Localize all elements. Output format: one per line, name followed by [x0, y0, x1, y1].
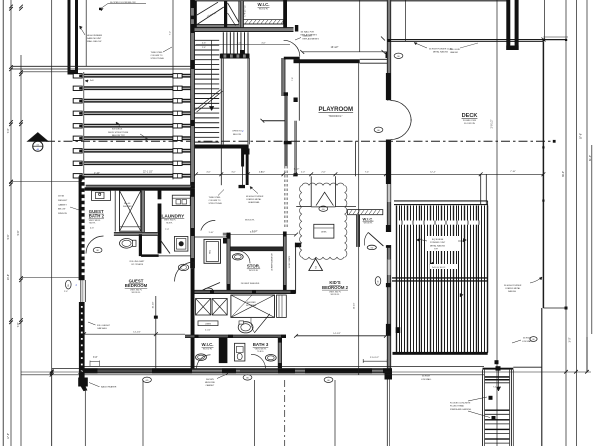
cd marker bedroom left — [66, 280, 72, 289]
floor joist 6 — [84, 136, 192, 138]
east wall black seg kid north — [386, 225, 391, 232]
bath2 toilet — [120, 239, 134, 249]
angled door — [255, 314, 270, 333]
svg-text:HIGH VENEER: HIGH VENEER — [87, 35, 102, 37]
laundry cabinet — [172, 195, 190, 205]
dimension line left 3 — [20, 55, 22, 446]
west wall window — [80, 280, 82, 302]
east house wall base — [387, 0, 390, 369]
svg-text:STRUCTURAL: STRUCTURAL — [209, 202, 223, 205]
svg-text:36 HIGH: 36 HIGH — [422, 376, 430, 378]
svg-text:WOOD FL: WOOD FL — [203, 348, 213, 350]
floor joist 8 — [84, 161, 192, 163]
sloped floor below note — [100, 4, 108, 10]
upper closet cell2 diagonal — [228, 3, 239, 22]
svg-text:4'-6": 4'-6" — [202, 42, 207, 44]
east wall black seg4 — [386, 283, 391, 287]
floor joist 9 — [84, 174, 192, 176]
revision cloud — [300, 183, 347, 259]
bath2 shower — [120, 191, 141, 232]
hall wall below laundry — [141, 254, 159, 257]
french door arc lower — [391, 119, 412, 140]
deck boards field — [396, 206, 398, 353]
upper closet room — [238, 1, 240, 28]
svg-text:61'-0": 61'-0" — [589, 155, 592, 161]
west wall upper flange — [68, 0, 71, 75]
lower vertical a — [51, 375, 53, 446]
svg-text:3: 3 — [315, 265, 317, 269]
gd marker deck door — [394, 53, 403, 58]
svg-text:WEDGE/T: WEDGE/T — [58, 200, 68, 202]
svg-text:WOOD FL: WOOD FL — [245, 220, 256, 222]
svg-text:BELOW TYP.: BELOW TYP. — [112, 135, 125, 137]
deck annotation patch — [427, 236, 461, 251]
kids dim line — [196, 173, 543, 175]
east wall door stop kid — [386, 245, 391, 248]
upper stair south wall — [221, 54, 250, 58]
svg-text:1'-10": 1'-10" — [208, 232, 213, 234]
svg-text:36 x 60: 36 x 60 — [124, 203, 130, 205]
hall east wall lower — [285, 96, 287, 166]
deck east wall — [542, 41, 544, 308]
east wall black mid — [386, 140, 391, 185]
bedroom dim line mid — [84, 333, 185, 335]
svg-text:W.I.C.: W.I.C. — [202, 342, 214, 347]
lower vertical c — [254, 380, 256, 446]
wic east wall — [283, 0, 287, 32]
svg-text:MEDICINE: MEDICINE — [205, 382, 215, 384]
bath3 door arc — [251, 354, 266, 369]
south wall black segments — [81, 369, 98, 374]
lower vertical b — [84, 387, 86, 446]
lower vertical b2 — [142, 380, 144, 446]
svg-text:COLUMN TO: COLUMN TO — [209, 200, 221, 202]
svg-text:WOOD FL: WOOD FL — [259, 9, 269, 11]
cd marker kids — [375, 277, 381, 286]
plan top edge line — [195, 0, 507, 2]
svg-text:BATH 2: BATH 2 — [89, 214, 105, 219]
upper closet diagonals — [197, 7, 224, 25]
svg-text:DESK: DESK — [321, 232, 327, 234]
gd marker south2 — [324, 377, 333, 382]
svg-text:9x9 DECK: 9x9 DECK — [112, 129, 123, 131]
south wall outer lines — [81, 365, 393, 367]
open well east wall black — [246, 149, 249, 186]
bench nook — [277, 295, 287, 317]
svg-text:24'-8": 24'-8" — [7, 274, 10, 280]
svg-text:FILLED TREAD: FILLED TREAD — [450, 405, 465, 408]
hall door leaf — [284, 57, 300, 60]
svg-text:FLO/DEX CONCRETE: FLO/DEX CONCRETE — [450, 402, 471, 404]
south wall band — [81, 369, 393, 373]
open to below well east rail — [247, 58, 249, 144]
svg-text:WALL BELOW: WALL BELOW — [87, 40, 102, 43]
french door arc upper — [391, 101, 412, 122]
lower centerline — [284, 380, 286, 446]
playroom west wall — [298, 59, 300, 121]
svg-text:TILE FL: TILE FL — [257, 351, 264, 353]
revision triangle 3 — [309, 259, 323, 271]
deck mid beam — [392, 277, 488, 278]
svg-text:BY OTHERS: BY OTHERS — [132, 264, 144, 266]
kids wic west wall — [357, 215, 360, 247]
laundry west wall — [158, 189, 162, 199]
tub bath door arc — [201, 220, 216, 230]
hall pocket door — [203, 283, 220, 291]
bath2 door arc — [86, 236, 104, 254]
svg-text:PLAYROOM: PLAYROOM — [318, 106, 353, 113]
east wall door opening kid — [387, 232, 392, 245]
svg-text:CABINET: CABINET — [206, 384, 215, 387]
svg-text:22'-1 1/2": 22'-1 1/2" — [143, 172, 153, 174]
svg-text:REPLACEMENTS: REPLACEMENTS — [303, 38, 320, 41]
hall north wall band — [195, 28, 294, 32]
bedroom closet wall — [155, 296, 157, 369]
svg-text:4'-1/2": 4'-1/2" — [205, 330, 211, 332]
svg-text:3'-0": 3'-0" — [569, 337, 572, 342]
upper closet side walls — [194, 1, 197, 28]
floor joist 2 — [84, 86, 192, 88]
wic west wall — [240, 1, 243, 28]
svg-text:7'-2": 7'-2" — [169, 31, 171, 36]
wic shelf band — [244, 20, 284, 24]
svg-text:STOR.: STOR. — [247, 264, 260, 269]
svg-text:36 x 72 TILE: 36 x 72 TILE — [246, 305, 257, 307]
tub room — [204, 239, 221, 263]
svg-text:24 DEEP SHELVES: 24 DEEP SHELVES — [241, 283, 260, 285]
hall south wall — [262, 120, 285, 122]
svg-text:14'-1/2": 14'-1/2" — [333, 333, 341, 335]
svg-text:57'-8": 57'-8" — [580, 133, 583, 139]
dimension line left 2 — [10, 0, 12, 446]
svg-text:CAB WALL: CAB WALL — [97, 327, 108, 330]
svg-text:SLOPED FLOOR BELOW: SLOPED FLOOR BELOW — [110, 2, 136, 4]
playroom north 3/4 wall lines — [360, 58, 388, 60]
closet wall black — [219, 338, 228, 364]
linen box — [198, 321, 218, 326]
svg-text:METAL RAILING: METAL RAILING — [433, 51, 448, 54]
svg-text:SHOWER: SHOWER — [247, 302, 256, 304]
right dim ticks — [564, 370, 568, 374]
hall door arc — [284, 40, 300, 56]
south deck line — [392, 365, 484, 367]
dim line right 2b — [586, 0, 588, 337]
svg-text:WOOD FL: WOOD FL — [249, 270, 259, 272]
svg-text:2'-9 1/2": 2'-9 1/2" — [490, 119, 493, 128]
svg-text:16'-1/2": 16'-1/2" — [331, 47, 339, 49]
east wall black seg6 — [386, 324, 391, 336]
section cut centerline — [46, 140, 554, 142]
svg-text:FULL HEIGHT: FULL HEIGHT — [97, 325, 111, 327]
svg-text:LOW WALL: LOW WALL — [421, 378, 432, 381]
wic door arc — [197, 355, 211, 369]
svg-text:SHOWN: SHOWN — [206, 379, 214, 381]
svg-text:4'-6": 4'-6" — [90, 228, 94, 230]
east wall footing blob — [385, 369, 393, 380]
playroom NE corner post — [386, 52, 391, 58]
center hall south wall — [195, 290, 296, 293]
svg-text:17 R @ 7 1/2: 17 R @ 7 1/2 — [245, 5, 247, 16]
west wall lower dots — [81, 306, 83, 308]
stair mid landing wall — [195, 145, 249, 149]
guest bedroom west interior wall — [191, 189, 195, 268]
stor dim line — [228, 234, 296, 236]
floor joist 4 — [84, 111, 192, 113]
svg-text:TUBE STEEL: TUBE STEEL — [209, 197, 222, 199]
svg-text:3'-6": 3'-6" — [93, 357, 98, 359]
bath3 toilet — [265, 355, 276, 362]
gd marker kid door — [367, 245, 376, 249]
lower vertical g — [386, 380, 388, 446]
main shower room — [231, 295, 275, 317]
wall connector lines left — [11, 65, 192, 67]
svg-text:36 HIGH: 36 HIGH — [523, 338, 531, 340]
svg-text:GUARDRAIL: GUARDRAIL — [248, 201, 261, 204]
svg-text:CATV: CATV — [140, 220, 143, 226]
section marker A5 — [33, 141, 43, 151]
svg-text:LOW WALL: LOW WALL — [522, 340, 533, 343]
svg-text:STAIRS AND LANDING: STAIRS AND LANDING — [450, 408, 472, 411]
floor joist 3 — [84, 99, 192, 101]
upper stair risers — [222, 32, 224, 54]
svg-text:EQ 36 HIGH: EQ 36 HIGH — [432, 239, 444, 241]
main stair rail east — [220, 58, 222, 144]
west wall notches — [82, 180, 85, 183]
svg-text:36 HIGH POWDER CLAD: 36 HIGH POWDER CLAD — [429, 48, 453, 51]
svg-text:7'-4": 7'-4" — [365, 171, 370, 173]
svg-text:"WOOD FL": "WOOD FL" — [328, 114, 342, 118]
left dim line y181 — [11, 181, 81, 183]
gd marker kids closet — [319, 206, 328, 211]
svg-text:9'-6": 9'-6" — [17, 230, 20, 235]
ext stair upper treads — [485, 376, 510, 378]
dimension line left outer — [2, 0, 4, 446]
center block walls — [195, 236, 229, 238]
kids closet chevron door — [316, 192, 333, 205]
east wall door opening french — [387, 101, 392, 140]
mid vertical f — [358, 62, 360, 374]
playroom north wall — [294, 59, 360, 63]
hall east wall upper — [282, 58, 285, 96]
long dim line lower — [21, 371, 591, 373]
svg-text:16'-10": 16'-10" — [353, 303, 355, 310]
top dim tick marks — [381, 37, 385, 41]
dim line far right — [591, 145, 593, 334]
floor joist 7 — [84, 149, 192, 151]
svg-text:7'-10": 7'-10" — [510, 171, 516, 173]
svg-text:LAUNDRY: LAUNDRY — [162, 213, 186, 218]
svg-text:TILE FL: TILE FL — [89, 223, 96, 225]
svg-text:BELOW: BELOW — [58, 209, 65, 211]
svg-text:SHOWER: SHOWER — [123, 206, 132, 208]
stair dim line — [196, 44, 290, 46]
stair break line — [195, 90, 221, 111]
svg-text:2x10 @ 16 OC: 2x10 @ 16 OC — [432, 267, 446, 269]
bath block north wall — [86, 185, 191, 187]
svg-text:2'-0": 2'-0" — [64, 291, 68, 293]
svg-text:COATED METAL: COATED METAL — [505, 287, 521, 290]
south wall window lines — [97, 369, 152, 371]
hall toilet — [238, 322, 253, 333]
laundry toilet small — [178, 264, 188, 270]
bath2 sink counter — [92, 191, 111, 201]
gd marker playroom — [374, 127, 383, 132]
svg-text:24 REFRIGERATOR: 24 REFRIGERATOR — [270, 253, 273, 271]
svg-text:1'-1/2": 1'-1/2" — [294, 169, 300, 171]
kids west wall line — [295, 243, 297, 294]
svg-text:BEDROOM: BEDROOM — [125, 283, 148, 288]
svg-text:36 HIGH POWDER: 36 HIGH POWDER — [504, 285, 522, 287]
floor joist 5 — [84, 124, 192, 126]
svg-text:2'-10 1/2": 2'-10 1/2" — [370, 357, 379, 359]
guest bedroom door arc — [175, 262, 195, 282]
west wall black upper — [79, 176, 85, 280]
guest bedroom east wall lower — [191, 268, 195, 369]
svg-text:W.I.C.: W.I.C. — [258, 2, 270, 7]
kids closet walls — [310, 176, 312, 206]
desk box — [314, 224, 334, 238]
svg-text:2'-0": 2'-0" — [301, 171, 306, 173]
svg-text:7'-8": 7'-8" — [17, 322, 20, 327]
svg-text:BELOW: BELOW — [233, 134, 242, 136]
svg-text:5/8 SB: 5/8 SB — [58, 196, 65, 198]
gd marker south0 — [143, 377, 152, 382]
ext stair direction line — [498, 368, 500, 391]
svg-text:TYP.: TYP. — [434, 249, 439, 251]
svg-text:RAILING: RAILING — [508, 290, 516, 293]
hall north wall corner post — [295, 25, 298, 32]
bath3 vanity — [235, 343, 245, 361]
bedroom dim line — [21, 277, 79, 279]
bath sink oval — [232, 254, 243, 260]
svg-text:TILE FL: TILE FL — [166, 222, 173, 224]
landing rail line — [220, 149, 222, 186]
svg-text:CABINET: CABINET — [58, 203, 67, 206]
east wall window2 — [387, 260, 391, 275]
gd marker south1 — [243, 375, 252, 380]
east wall black nook — [386, 73, 391, 100]
stair block west wall — [191, 0, 195, 189]
svg-text:4'-6": 4'-6" — [206, 171, 211, 173]
catv wall bottom black — [139, 234, 142, 256]
svg-text:METAL RAILING: METAL RAILING — [430, 244, 445, 247]
svg-text:COLUMN TO: COLUMN TO — [151, 55, 163, 57]
svg-text:48 HIGH POWDER: 48 HIGH POWDER — [246, 196, 264, 198]
dimension line left 4 — [51, 0, 53, 446]
joist bay west line — [83, 72, 85, 180]
svg-text:WOOD FL: WOOD FL — [331, 294, 340, 296]
deck top short line — [543, 36, 568, 38]
deck board bottom bar — [393, 352, 488, 355]
deck rail west — [480, 174, 482, 205]
chimney — [506, 0, 510, 50]
floor joist 1 — [84, 74, 192, 76]
stor door arc — [238, 251, 251, 264]
upper-left room east line — [85, 0, 87, 66]
landing wall jog — [241, 149, 249, 155]
svg-text:BATH 3: BATH 3 — [253, 342, 269, 347]
svg-text:WOOD FL: WOOD FL — [364, 223, 373, 225]
deck north wall — [391, 39, 566, 41]
kids dim bottom line — [296, 335, 386, 337]
west wall black lower — [79, 302, 85, 378]
deck top dim vert — [544, 0, 546, 40]
lower vertical d — [334, 380, 336, 446]
svg-text:REPLACEMENTS: REPLACEMENTS — [301, 34, 318, 37]
deck rail top — [394, 200, 488, 202]
svg-text:BACK HEATER: BACK HEATER — [101, 386, 117, 389]
svg-text:WOOD FL: WOOD FL — [132, 292, 141, 294]
stair direction line — [211, 40, 213, 108]
ext stair side walls — [482, 370, 484, 446]
laundry appliance — [174, 237, 188, 252]
kid door leaf — [368, 232, 383, 246]
dim line right 2 — [576, 0, 578, 446]
svg-text:FLOOR FIN: FLOOR FIN — [464, 123, 475, 125]
deck wall junction dots — [565, 39, 567, 41]
svg-text:10'-1/2": 10'-1/2" — [153, 301, 155, 308]
svg-text:3/4 WALL FOR: 3/4 WALL FOR — [301, 31, 315, 34]
deck upper gap strip — [398, 221, 480, 225]
svg-text:14'-1/2": 14'-1/2" — [133, 331, 141, 333]
svg-text:4'-6": 4'-6" — [261, 42, 266, 44]
dim line right 3 — [586, 337, 588, 372]
bath3 east wall — [278, 338, 281, 369]
west lower dim ticks — [50, 370, 54, 374]
svg-text:ROLLING CART: ROLLING CART — [130, 260, 146, 263]
hall east wall dashed opening — [284, 166, 286, 227]
svg-text:3'-0": 3'-0" — [237, 42, 242, 44]
svg-text:WINDOW: WINDOW — [58, 213, 67, 215]
svg-text:2'-6": 2'-6" — [321, 171, 326, 173]
svg-text:2'-6": 2'-6" — [202, 47, 206, 49]
svg-text:TUBE STEEL: TUBE STEEL — [151, 52, 164, 54]
svg-text:LINEN: LINEN — [205, 323, 211, 325]
svg-text:36'-0": 36'-0" — [562, 171, 565, 177]
svg-text:DECK: DECK — [462, 113, 478, 119]
bath2 shower curb — [120, 226, 141, 228]
svg-text:STRUCTURAL: STRUCTURAL — [151, 57, 165, 60]
svg-text:COATED METAL: COATED METAL — [246, 198, 262, 201]
playroom dim line — [302, 51, 387, 53]
x cabinet boxes — [196, 299, 211, 316]
main stair treads — [195, 39, 220, 41]
deck rail dot junctions — [542, 146, 544, 148]
svg-text:TUB: TUB — [208, 250, 210, 255]
svg-text:17'-9": 17'-9" — [7, 433, 10, 439]
upper vertical e — [359, 0, 361, 52]
laundry south wall — [114, 232, 158, 235]
svg-text:4'-2": 4'-2" — [261, 171, 266, 173]
svg-text:PLUMB CORK: PLUMB CORK — [463, 120, 477, 122]
playroom west post — [294, 98, 298, 103]
svg-text:24 REF SPACE: 24 REF SPACE — [288, 255, 291, 268]
svg-text:7'-3": 7'-3" — [165, 229, 169, 231]
svg-text:LAM BM: LAM BM — [450, 51, 458, 54]
deck east boundary — [496, 0, 498, 446]
svg-text:OPEN TO: OPEN TO — [232, 131, 242, 133]
joist bay mid line — [172, 0, 174, 180]
kid door arc — [364, 232, 368, 245]
east wall window1 — [387, 184, 391, 202]
svg-text:12'-2": 12'-2" — [430, 171, 436, 173]
svg-text:BEDROOM 2: BEDROOM 2 — [322, 285, 349, 290]
svg-text:2'-10": 2'-10" — [94, 173, 100, 175]
catv closet wall — [141, 191, 144, 236]
svg-text:7'-3": 7'-3" — [7, 128, 10, 133]
ext stair lower treads — [485, 410, 510, 411]
bath2 shower wall west — [114, 191, 116, 232]
